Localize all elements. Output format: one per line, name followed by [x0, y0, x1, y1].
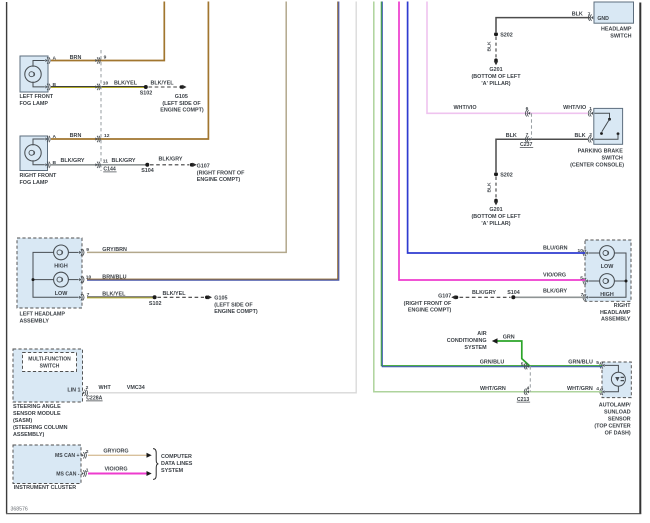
svg-text:9: 9 — [86, 247, 89, 253]
wire dashed BLK/YEL headlamp to G105 — [157, 291, 204, 297]
svg-text:ASSEMBLY: ASSEMBLY — [20, 319, 50, 325]
svg-text:RIGHT FRONT: RIGHT FRONT — [20, 173, 58, 179]
svg-text:WHT/GRN: WHT/GRN — [480, 386, 506, 392]
svg-text:HIGH: HIGH — [54, 264, 68, 270]
ground G201 (headlamp switch) — [471, 58, 521, 86]
svg-text:GRN/BLU: GRN/BLU — [480, 359, 505, 365]
svg-text:STEERING ANGLE: STEERING ANGLE — [13, 404, 61, 410]
splice S202 — [494, 32, 513, 38]
right headlamp assembly — [583, 240, 631, 323]
svg-text:7: 7 — [526, 132, 529, 138]
wire dashed BLK to G201 (parking brake) — [486, 177, 496, 198]
left headlamp assembly — [17, 238, 84, 325]
svg-text:BLK/YEL: BLK/YEL — [102, 291, 126, 297]
svg-text:VIO/ORG: VIO/ORG — [543, 272, 566, 278]
svg-text:5: 5 — [596, 360, 599, 366]
svg-text:BLK/YEL: BLK/YEL — [162, 291, 186, 297]
svg-text:LIN 1: LIN 1 — [67, 387, 80, 393]
svg-text:(RIGHT FRONT OF: (RIGHT FRONT OF — [197, 171, 245, 177]
svg-text:GRY/ORG: GRY/ORG — [103, 448, 128, 454]
svg-text:BLK/YEL: BLK/YEL — [150, 80, 174, 86]
splice S202 (parking brake) — [494, 172, 513, 178]
svg-text:GRN/BLU: GRN/BLU — [568, 359, 593, 365]
wire BRN left fog lamp — [51, 2, 164, 61]
svg-text:'A' PILLAR): 'A' PILLAR) — [481, 81, 510, 87]
svg-text:G201: G201 — [489, 207, 502, 213]
wire dashed BLK/YEL to G105 — [149, 80, 179, 87]
svg-text:ASSEMBLY: ASSEMBLY — [601, 317, 631, 323]
svg-text:WHT: WHT — [99, 385, 112, 391]
svg-text:DATA LINES: DATA LINES — [161, 461, 193, 467]
svg-text:BLU/GRN: BLU/GRN — [543, 245, 568, 251]
svg-text:MS CAN +: MS CAN + — [55, 453, 80, 459]
svg-text:BLK: BLK — [575, 133, 586, 139]
svg-text:2: 2 — [86, 449, 89, 455]
svg-text:S202: S202 — [500, 32, 513, 38]
splice S102 — [140, 85, 153, 96]
svg-text:(LEFT SIDE OF: (LEFT SIDE OF — [162, 101, 201, 107]
svg-text:1: 1 — [589, 106, 592, 112]
svg-text:(LEFT SIDE OF: (LEFT SIDE OF — [214, 302, 253, 308]
wire GRN/BLU autolamp sensor — [381, 2, 602, 368]
svg-text:2: 2 — [589, 132, 592, 138]
svg-text:6: 6 — [526, 106, 529, 112]
wire BLK/GRY right fog lamp — [51, 158, 147, 165]
svg-text:CONDITIONING: CONDITIONING — [447, 338, 487, 344]
svg-text:INSTRUMENT CLUSTER: INSTRUMENT CLUSTER — [14, 485, 76, 491]
svg-text:10: 10 — [86, 274, 92, 280]
svg-text:LEFT FRONT: LEFT FRONT — [20, 94, 54, 100]
ground G105 (fog lamp) — [160, 85, 204, 114]
wire GRY/ORG MS CAN+ — [88, 448, 152, 457]
svg-text:SYSTEM: SYSTEM — [464, 345, 487, 351]
svg-text:LOW: LOW — [601, 264, 614, 270]
svg-text:S102: S102 — [149, 301, 162, 307]
svg-text:G107: G107 — [438, 294, 451, 300]
autolamp/sunload sensor — [594, 360, 631, 437]
wire BRN/BLU left headlamp low — [86, 2, 339, 281]
svg-text:(BOTTOM OF LEFT: (BOTTOM OF LEFT — [471, 214, 521, 220]
wire BLK parking brake switch — [496, 133, 588, 172]
ground G201 (parking brake) — [471, 199, 521, 227]
svg-text:2: 2 — [86, 385, 89, 391]
svg-text:10: 10 — [103, 81, 109, 87]
svg-text:GRN: GRN — [503, 335, 515, 341]
svg-text:ENGINE COMPT): ENGINE COMPT) — [408, 307, 452, 313]
svg-text:BLK/GRY: BLK/GRY — [543, 289, 567, 295]
ground G105 (headlamp) — [205, 295, 258, 315]
svg-text:ENGINE COMPT): ENGINE COMPT) — [197, 177, 241, 183]
svg-text:S202: S202 — [500, 172, 513, 178]
wire WHT/GRN autolamp sensor — [374, 2, 602, 393]
wire WHT VMC34 — [89, 2, 356, 393]
svg-text:LOW: LOW — [55, 291, 68, 297]
svg-text:BLK/GRY: BLK/GRY — [158, 156, 182, 162]
svg-text:WHT/VIO: WHT/VIO — [453, 105, 476, 111]
svg-text:SUNLOAD: SUNLOAD — [604, 410, 631, 416]
svg-text:HEADLAMP: HEADLAMP — [600, 310, 631, 316]
svg-text:MULTI-FUNCTION: MULTI-FUNCTION — [28, 357, 71, 363]
svg-text:GND: GND — [597, 16, 609, 22]
connector C213 — [517, 363, 531, 403]
svg-text:MS CAN -: MS CAN - — [56, 471, 80, 477]
svg-text:7: 7 — [581, 292, 584, 298]
wire BLK/YEL left fog lamp — [51, 80, 146, 87]
wire VIO/ORG right headlamp high — [399, 2, 585, 282]
svg-text:AUTOLAMP/: AUTOLAMP/ — [599, 403, 631, 409]
svg-text:HEADLAMP: HEADLAMP — [601, 27, 632, 33]
svg-text:(BOTTOM OF LEFT: (BOTTOM OF LEFT — [471, 74, 521, 80]
svg-text:ASSEMBLY): ASSEMBLY) — [13, 432, 44, 438]
svg-text:G107: G107 — [197, 164, 210, 170]
svg-text:SWITCH: SWITCH — [40, 364, 60, 370]
svg-text:COMPUTER: COMPUTER — [161, 454, 192, 460]
node computer data lines system — [153, 449, 193, 480]
svg-text:SENSOR: SENSOR — [608, 417, 631, 423]
svg-text:RIGHT: RIGHT — [614, 303, 631, 309]
wire GRN air conditioning branch — [497, 335, 530, 366]
svg-text:OF DASH): OF DASH) — [605, 431, 631, 437]
svg-text:BLK/GRY: BLK/GRY — [111, 158, 135, 164]
svg-text:VMC34: VMC34 — [127, 385, 145, 391]
svg-text:BLK/GRY: BLK/GRY — [60, 158, 84, 164]
connector C144 — [95, 50, 116, 173]
svg-text:BRN/BLU: BRN/BLU — [102, 274, 126, 280]
wire BLK/GRY right headlamp — [513, 289, 585, 299]
ground G107 (fog lamp) — [190, 163, 245, 184]
svg-text:GRY/BRN: GRY/BRN — [102, 247, 127, 253]
svg-text:SWITCH: SWITCH — [610, 34, 631, 40]
svg-text:BRN: BRN — [70, 133, 82, 139]
svg-text:BLK: BLK — [486, 41, 492, 52]
svg-text:BLK: BLK — [506, 133, 517, 139]
wire VIO/ORG MS CAN- — [88, 467, 152, 476]
svg-text:BLK/YEL: BLK/YEL — [114, 80, 138, 86]
svg-text:G105: G105 — [175, 94, 188, 100]
left front fog lamp — [20, 55, 57, 107]
svg-text:12: 12 — [104, 133, 110, 139]
instrument cluster — [13, 445, 89, 491]
svg-text:ENGINE COMPT): ENGINE COMPT) — [160, 107, 204, 113]
wire BLU/GRN right headlamp low — [408, 2, 585, 254]
svg-text:BLK: BLK — [486, 182, 492, 193]
svg-text:(TOP CENTER: (TOP CENTER — [594, 424, 630, 430]
right front fog lamp — [20, 134, 58, 186]
svg-text:SENSOR MODULE: SENSOR MODULE — [13, 411, 61, 417]
ground G107 (right headlamp) — [404, 294, 459, 314]
splice S104 (right headlamp) — [507, 290, 520, 300]
svg-text:S104: S104 — [507, 290, 520, 296]
connector C228A — [86, 396, 103, 402]
wire GRY/BRN left headlamp high — [86, 2, 286, 254]
wire BLK/YEL left headlamp — [87, 291, 155, 298]
svg-text:7: 7 — [588, 12, 591, 18]
svg-text:VIO/ORG: VIO/ORG — [104, 467, 127, 473]
svg-text:(STEERING COLUMN: (STEERING COLUMN — [13, 425, 68, 431]
steering angle sensor module (SASM) — [13, 349, 89, 438]
wire WHT/VIO parking brake switch — [427, 2, 588, 114]
svg-text:SWITCH: SWITCH — [602, 155, 623, 161]
svg-text:SYSTEM: SYSTEM — [161, 468, 184, 474]
node air conditioning system — [447, 331, 498, 351]
headlamp switch — [588, 2, 633, 40]
svg-text:LEFT HEADLAMP: LEFT HEADLAMP — [20, 312, 66, 318]
svg-text:10: 10 — [578, 248, 584, 254]
svg-text:BLK/GRY: BLK/GRY — [472, 290, 496, 296]
wire BRN right fog lamp — [51, 2, 208, 140]
wire dashed BLK to G201 — [486, 37, 496, 58]
svg-text:S104: S104 — [141, 168, 154, 174]
svg-text:BLK: BLK — [572, 12, 583, 18]
svg-text:G105: G105 — [214, 295, 227, 301]
svg-text:5: 5 — [521, 361, 524, 367]
splice S104 — [141, 163, 154, 174]
svg-text:9: 9 — [104, 55, 107, 61]
svg-text:PARKING BRAKE: PARKING BRAKE — [578, 148, 624, 154]
svg-text:5: 5 — [580, 275, 583, 281]
svg-text:(SASM): (SASM) — [13, 418, 32, 424]
svg-text:7: 7 — [87, 292, 90, 298]
wire dashed BLK/GRY to G107 (right) — [460, 290, 511, 298]
wire BLK headlamp switch ground — [496, 12, 591, 32]
splice S102 (headlamp) — [149, 295, 162, 307]
svg-text:368576: 368576 — [11, 506, 28, 512]
svg-text:11: 11 — [103, 158, 108, 164]
svg-text:FOG LAMP: FOG LAMP — [20, 101, 49, 107]
svg-text:BRN: BRN — [70, 55, 82, 61]
svg-text:WHT/VIO: WHT/VIO — [563, 105, 586, 111]
svg-text:(CENTER CONSOLE): (CENTER CONSOLE) — [570, 162, 624, 168]
parking brake switch — [570, 106, 624, 169]
svg-text:FOG LAMP: FOG LAMP — [20, 180, 49, 186]
svg-text:(RIGHT FRONT OF: (RIGHT FRONT OF — [404, 301, 452, 307]
svg-text:ENGINE COMPT): ENGINE COMPT) — [214, 309, 258, 315]
svg-text:'A' PILLAR): 'A' PILLAR) — [481, 221, 510, 227]
svg-text:AIR: AIR — [477, 331, 486, 337]
wire dashed BLK/GRY to G107 — [150, 156, 189, 165]
svg-text:G201: G201 — [489, 67, 502, 73]
svg-text:S102: S102 — [140, 90, 153, 96]
connector C237 — [520, 106, 533, 148]
svg-text:WHT/GRN: WHT/GRN — [567, 386, 593, 392]
